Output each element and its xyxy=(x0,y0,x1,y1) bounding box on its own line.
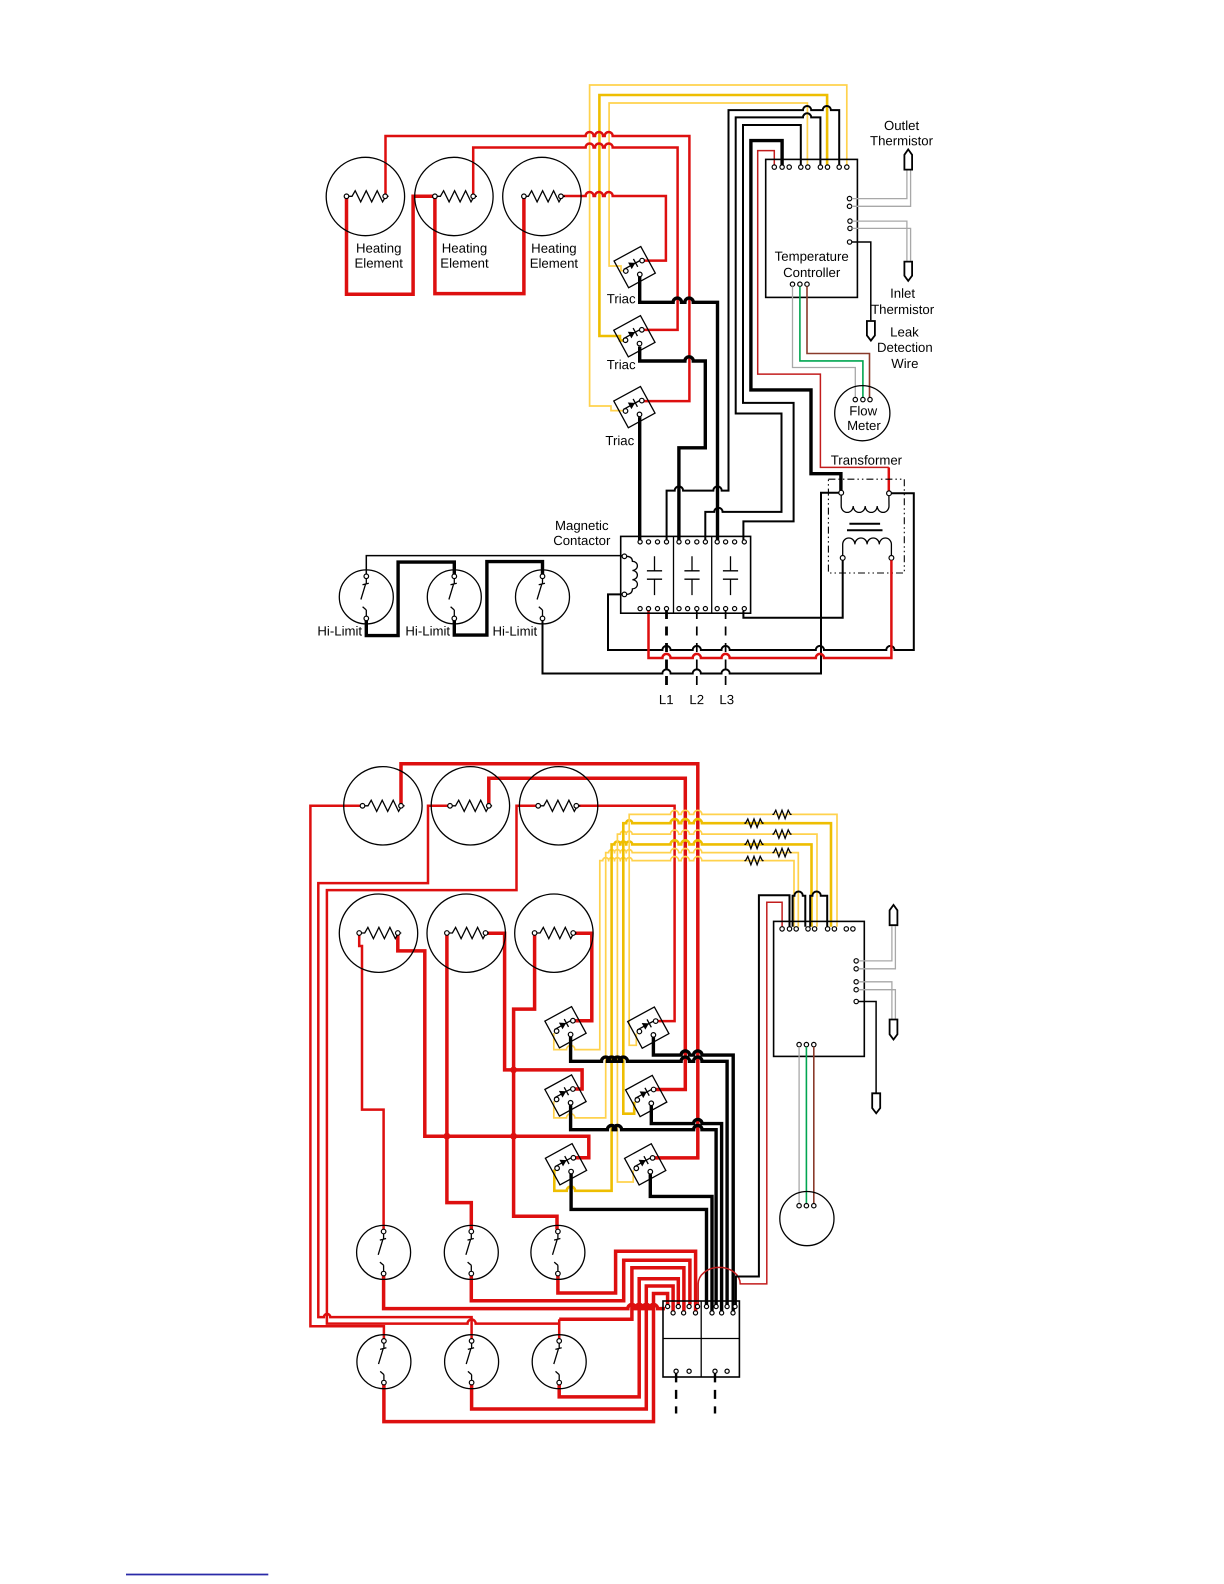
wire: maroon to flow meter (bottom) xyxy=(813,1047,815,1204)
svg-text:Transformer: Transformer xyxy=(831,453,903,468)
magnetic contactor box xyxy=(621,536,751,613)
wire: thick yellow gate line L2 (TB2 gate) xyxy=(623,819,831,1114)
svg-text:Triac: Triac xyxy=(607,357,636,372)
svg-text:Thermistor: Thermistor xyxy=(870,133,934,148)
wire: thick black controller pin2 to transformer primary left xyxy=(751,141,841,491)
svg-text:Element: Element xyxy=(440,256,489,271)
triac TA3 xyxy=(545,1144,586,1185)
hi-limit switch 1 xyxy=(339,570,393,624)
lead L1 dashed xyxy=(665,610,668,688)
wire: grey to flow meter (bottom) xyxy=(798,1047,800,1204)
outlet thermistor symbol xyxy=(904,149,912,169)
wire: yellow gate bus Y1 (controller pin9 to triac3 gate) xyxy=(590,85,847,411)
wire: red B6 left joining TA2 net then to hi-limit row1 #3 top xyxy=(514,933,557,1229)
svg-text:Flow: Flow xyxy=(849,403,877,418)
controller bottom pins xyxy=(790,282,809,286)
controller right pins (bottom diagram) xyxy=(854,959,858,1004)
controller box (bottom) xyxy=(774,921,865,1056)
capacitor contact symbol section3 xyxy=(723,556,738,595)
wire: red hi-limit row2 #3 top branch n-shape xyxy=(559,1268,684,1320)
wire: leak detection wire from controller pin xyxy=(852,242,871,320)
transformer core xyxy=(847,524,883,531)
wire: black controller pin2 to contactor right section xyxy=(736,895,790,1305)
wire: black triac2 output to contactor section2 pin1 (hop over red vertical) xyxy=(640,347,706,540)
wire: red controller pin1 via arc over bundle to contactor xyxy=(698,902,782,1304)
resistor on line L1 xyxy=(772,810,791,818)
wire: black controller pin4 nest to contactor section3 pin4 xyxy=(743,125,801,540)
resistor on line L2 xyxy=(744,819,763,827)
hi-limit row1 #2 xyxy=(444,1225,498,1279)
hi-limit switch 2 xyxy=(427,570,481,624)
contactor top pins xyxy=(638,540,746,544)
wire: black TA3 output to contactor xyxy=(571,1174,706,1305)
leak detection wire symbol xyxy=(867,321,875,341)
wire: red B3 left chain to hi-limit row2 #3 top (bump) xyxy=(327,806,559,1324)
wire: red B6 right to triac TA1 xyxy=(573,933,592,1021)
wire: black TB3 output to contactor xyxy=(650,1174,712,1311)
svg-text:Triac: Triac xyxy=(607,291,636,306)
wire: red B2 left chain to hi-limit row2 #2 top (bump) xyxy=(318,806,471,1339)
svg-text:Hi-Limit: Hi-Limit xyxy=(317,624,362,639)
hi-limit row2 #2 xyxy=(445,1335,499,1389)
wire: yellow gate line L3 (TB3 gate) xyxy=(617,830,817,1182)
hi-limit switch 3 xyxy=(516,570,570,624)
controller right pins xyxy=(847,196,852,244)
flow meter circle xyxy=(835,386,890,441)
wire: contactor coil bottom to transformer primary right loop (hops) xyxy=(608,493,914,650)
wire: green to flow meter (bottom) xyxy=(805,1047,807,1204)
wire: red hi-limit row2 #3 bottom to contactor (n-shape) xyxy=(559,1279,678,1397)
svg-text:Heating: Heating xyxy=(356,241,401,256)
wire: thick yellow gate line L4 (TA3 gate) xyxy=(554,840,811,1191)
svg-text:Wire: Wire xyxy=(891,356,918,371)
wire: transformer secondary left to contactor section3 pin4 xyxy=(743,560,842,618)
svg-text:Inlet: Inlet xyxy=(890,286,915,301)
temperature controller box xyxy=(766,159,858,297)
controller bottom pins (bottom diagram) xyxy=(797,1042,816,1046)
wire: thick red loop heating element 2 left to element 3 left xyxy=(435,196,524,293)
svg-text:Element: Element xyxy=(355,256,404,271)
junction dot TA2 net xyxy=(510,1067,517,1074)
wire: red B3 right to triac TB1 xyxy=(576,806,674,1021)
inlet thermistor symbol (bottom) xyxy=(890,1020,898,1040)
wire: yellow gate bus Y3 (controller pin5 to triac1 gate) xyxy=(609,103,807,271)
lead L1 dashed (bottom diagram) xyxy=(675,1373,677,1413)
wire: hi-limit3 bottom bus to transformer primary left tap (hops over L1 L2 L3) xyxy=(543,493,839,674)
svg-text:Meter: Meter xyxy=(847,418,881,433)
wire: red hi-limit row2 #2 bottom to contactor (n-shape) xyxy=(472,1286,673,1409)
capacitor contact symbol section2 xyxy=(684,556,699,595)
svg-text:Heating: Heating xyxy=(442,241,487,256)
wire: red hi-limit row1 #1 bottom long bus to contactor pin1 (hops) xyxy=(384,1274,665,1309)
heating element circle B3 xyxy=(519,767,597,845)
capacitor contact symbol section1 xyxy=(647,556,662,595)
triac 1 (top) xyxy=(614,246,655,287)
wire: grey inlet thermistor leads (bottom) xyxy=(858,982,895,1019)
wire: grey outlet thermistor leads xyxy=(852,171,911,207)
lead L2 dashed xyxy=(696,610,698,688)
transformer secondary coil xyxy=(840,538,894,560)
lead L2 dashed (bottom diagram) xyxy=(714,1373,716,1413)
svg-text:Contactor: Contactor xyxy=(553,533,611,548)
wire: black n-hop pin3 to pin4 xyxy=(793,892,806,927)
wire: yellow gate bus Y2 (controller pin7 to triac2 gate) xyxy=(599,95,827,340)
wire: yellow gate line L5 (TA2 gate) xyxy=(554,848,799,1117)
wire: thick red loop heating element 1 left to element 2 left xyxy=(347,196,435,294)
wire: thick hi-limit1 bottom to hi-limit2 top xyxy=(366,562,454,636)
wire: red B1 left to hi-limit row2 #1 top xyxy=(310,806,384,1339)
heating element circle 2 xyxy=(415,157,493,235)
triac 2 (top) xyxy=(614,316,655,357)
triac TB2 xyxy=(626,1075,667,1116)
transformer dashed enclosure xyxy=(828,479,904,573)
lead L3 dashed xyxy=(725,610,727,688)
svg-text:Magnetic: Magnetic xyxy=(555,518,609,533)
heating element circle B1 xyxy=(344,767,422,845)
svg-text:Temperature: Temperature xyxy=(775,249,849,264)
triac TA2 xyxy=(545,1075,586,1116)
contactor bottom pins xyxy=(638,607,746,611)
svg-text:Leak: Leak xyxy=(890,325,919,340)
wire: thin red controller pin1 to transformer primary right xyxy=(758,151,889,468)
wire: red hi-limit row2 #3 top vertical xyxy=(558,1319,561,1339)
wire: red hi-limit row1 #2 bottom to contactor (n-shape) xyxy=(471,1260,690,1304)
wire: yellow gate line L1 (TB1 gate) xyxy=(629,810,837,1045)
junction dot C5L net xyxy=(444,1133,451,1140)
wire: red phase heating element 2 to triac 2 (hops over yellow verticals) xyxy=(473,144,677,330)
wire: red B5 left to hi-limit row1 #2 top xyxy=(447,933,471,1229)
leak detection symbol (bottom) xyxy=(872,1093,880,1113)
wire: black TA2 output to contactor (hops) xyxy=(571,1105,717,1304)
wire: red drop to transformer primary right terminal xyxy=(888,467,891,490)
wire: red phase heating element 3 to triac 1 (hops over yellow verticals) xyxy=(561,192,666,261)
wire: red phase heating element 1 to triac 3 (hops over yellow verticals) xyxy=(386,132,690,401)
contactor bottom pins (bottom diagram) xyxy=(674,1369,729,1373)
contactor top pins lower row (bottom diagram) xyxy=(671,1311,735,1315)
wire: red hi-limit row2 #1 bottom to contactor (n-shape) xyxy=(384,1294,668,1422)
wire: hi-limit chain to contactor coil top (thin) xyxy=(366,556,622,575)
hi-limit row1 #1 (bottom diagram) xyxy=(357,1225,411,1279)
resistor on line L5 xyxy=(772,848,791,856)
hi-limit row2 #1 xyxy=(357,1335,411,1389)
wire: grey controller to flow meter xyxy=(793,286,856,397)
svg-text:L3: L3 xyxy=(719,692,734,707)
wire: black triac3 output to contactor section1 pin1 xyxy=(638,417,641,540)
inlet thermistor symbol xyxy=(904,262,912,281)
flow meter circle (bottom) xyxy=(780,1192,834,1246)
heating element circle B2 xyxy=(431,767,509,845)
wire: black controller pin6 nest to contactor section2 pin4 (hops) xyxy=(705,113,820,540)
triac TB1 xyxy=(628,1007,669,1048)
triac TB3 xyxy=(625,1144,666,1185)
triac TA1 xyxy=(545,1007,586,1048)
junction dot C6L net xyxy=(510,1133,517,1140)
wire: green controller to flow meter xyxy=(800,286,863,397)
wire: black TB2 output to contactor (hop) xyxy=(651,1106,721,1311)
heating element circle B4 xyxy=(339,894,417,972)
wire: thick hi-limit2 bottom to hi-limit3 top xyxy=(454,562,542,636)
wire: black triac1 output to contactor section3 pin1 (hops over red verticals) xyxy=(640,277,718,540)
wire: black TA1 output to contactor (hops) xyxy=(571,1037,728,1305)
svg-text:Controller: Controller xyxy=(783,265,841,280)
resistor on line L3 xyxy=(772,830,791,838)
svg-text:Outlet: Outlet xyxy=(884,118,920,133)
svg-text:Detection: Detection xyxy=(877,340,933,355)
svg-text:Hi-Limit: Hi-Limit xyxy=(493,624,538,639)
heating element circle 3 xyxy=(503,157,581,235)
wire: red B1 right to triac TB3 xyxy=(401,764,698,1158)
contactor top pins upper row (bottom diagram) xyxy=(666,1304,738,1308)
wire: black TB1 output to contactor (hops) xyxy=(653,1037,733,1311)
wire: red B4 right to triac TA3 xyxy=(398,933,589,1158)
svg-text:Heating: Heating xyxy=(531,241,576,256)
svg-text:L2: L2 xyxy=(689,692,704,707)
footer rule xyxy=(126,1574,268,1576)
contactor coil xyxy=(622,554,637,597)
wire: grey outlet thermistor leads (bottom) xyxy=(858,926,895,969)
wire: red B2 right to triac TB2 xyxy=(489,778,686,1089)
resistor on line L6 xyxy=(744,856,763,864)
svg-text:Triac: Triac xyxy=(605,433,634,448)
wire: black n-hop pin5 to pin6 xyxy=(810,892,827,927)
heating element circle 1 xyxy=(326,157,404,235)
wire: red contactor sec1 pin2 to transformer secondary right (hops) xyxy=(649,560,892,658)
wire: grey inlet thermistor leads xyxy=(852,221,910,261)
svg-text:Thermistor: Thermistor xyxy=(871,302,935,317)
controller top pins xyxy=(772,165,849,169)
wire: maroon controller to flow meter xyxy=(807,286,870,397)
wire: red B4 left to hi-limit row1 #1 top xyxy=(359,933,383,1229)
svg-text:Hi-Limit: Hi-Limit xyxy=(405,624,450,639)
resistor on line L4 xyxy=(744,840,763,848)
wire: yellow gate line L6 (TA1 gate, hop over black) xyxy=(554,856,794,1049)
wire: red B5 right to triac TA2 xyxy=(486,933,583,1089)
transformer primary coil xyxy=(839,490,892,512)
svg-text:Element: Element xyxy=(530,256,579,271)
wire: black controller pin8 nest to contactor section1 pin4 (hops) xyxy=(667,106,840,540)
controller top pins (bottom diagram) xyxy=(780,927,855,931)
heating element circle B6 xyxy=(515,894,593,972)
outlet thermistor symbol (bottom) xyxy=(890,905,898,925)
wire: red hi-limit row1 #3 bottom to contactor (n-shape) xyxy=(558,1251,696,1311)
svg-text:L1: L1 xyxy=(659,692,674,707)
triac 3 (top) xyxy=(614,386,655,427)
heating element circle B5 xyxy=(427,894,505,972)
magnetic contactor box (bottom diagram) xyxy=(663,1301,739,1377)
hi-limit row2 #3 xyxy=(532,1335,586,1389)
hi-limit row1 #3 xyxy=(531,1225,585,1279)
wire: leak detection (bottom) xyxy=(858,1002,876,1093)
